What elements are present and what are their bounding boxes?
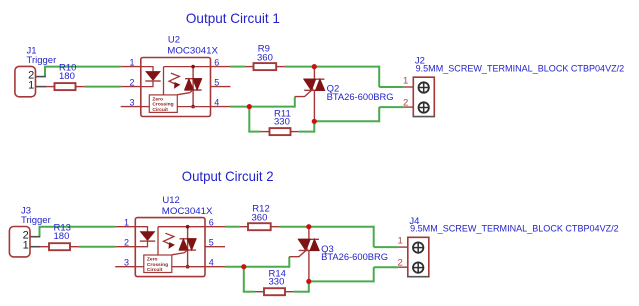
svg-text:180: 180 [59, 71, 75, 82]
svg-text:3: 3 [129, 98, 134, 108]
svg-text:Zero: Zero [152, 96, 163, 102]
svg-text:Zero: Zero [147, 256, 158, 262]
svg-text:1: 1 [23, 240, 29, 252]
svg-text:1: 1 [403, 76, 408, 87]
svg-text:2: 2 [129, 78, 134, 88]
svg-text:1: 1 [28, 79, 34, 91]
svg-text:2: 2 [124, 238, 129, 248]
svg-text:Output Circuit 2: Output Circuit 2 [182, 168, 274, 184]
svg-text:6: 6 [214, 58, 219, 68]
svg-text:Trigger: Trigger [27, 55, 57, 66]
svg-text:MOC3041X: MOC3041X [162, 206, 213, 217]
svg-text:330: 330 [274, 117, 290, 128]
svg-text:2: 2 [398, 257, 403, 268]
svg-text:Circuit: Circuit [147, 267, 163, 273]
svg-text:180: 180 [54, 231, 70, 242]
svg-text:5: 5 [209, 238, 214, 248]
svg-text:360: 360 [252, 213, 268, 224]
svg-text:U12: U12 [162, 195, 179, 206]
svg-text:Circuit: Circuit [152, 107, 168, 113]
svg-text:6: 6 [209, 218, 214, 228]
svg-text:3: 3 [124, 258, 129, 268]
svg-text:Crossing: Crossing [152, 102, 173, 108]
svg-text:4: 4 [214, 98, 219, 108]
svg-text:1: 1 [398, 236, 403, 247]
svg-text:5: 5 [214, 78, 219, 88]
svg-text:2: 2 [403, 97, 408, 108]
svg-text:1: 1 [129, 58, 134, 68]
svg-text:U2: U2 [168, 35, 180, 46]
svg-text:330: 330 [269, 277, 285, 288]
svg-text:BTA26-600BRG: BTA26-600BRG [327, 92, 394, 103]
svg-text:360: 360 [257, 53, 273, 64]
svg-text:BTA26-600BRG: BTA26-600BRG [321, 252, 388, 263]
svg-text:MOC3041X: MOC3041X [167, 46, 218, 57]
svg-text:4: 4 [209, 258, 214, 268]
svg-text:Crossing: Crossing [147, 262, 168, 268]
svg-text:Output Circuit 1: Output Circuit 1 [186, 10, 280, 26]
svg-text:Trigger: Trigger [21, 215, 51, 226]
svg-text:9.5MM_SCREW_TERMINAL_BLOCK CTB: 9.5MM_SCREW_TERMINAL_BLOCK CTBP04VZ/2 [410, 224, 619, 235]
svg-text:1: 1 [124, 218, 129, 228]
svg-text:9.5MM_SCREW_TERMINAL_BLOCK CTB: 9.5MM_SCREW_TERMINAL_BLOCK CTBP04VZ/2 [416, 64, 625, 75]
